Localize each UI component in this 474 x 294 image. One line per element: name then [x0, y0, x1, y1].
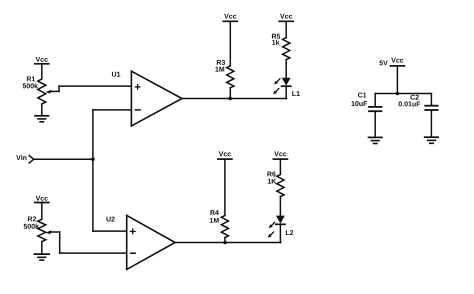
label R1 [27, 76, 35, 81]
label 10uF [352, 101, 368, 106]
label R3 [217, 60, 225, 65]
ground at C2 [425, 137, 438, 143]
label R2 [28, 216, 36, 221]
label 500k [24, 224, 39, 229]
node Vcc rail junction [396, 92, 400, 96]
node junction R3 output [229, 97, 233, 101]
label U1 [112, 72, 120, 77]
resistor R3 [227, 66, 234, 99]
ground at C1 [369, 137, 382, 143]
label C1 [358, 93, 366, 98]
capacitor C2 [425, 94, 437, 138]
node junction R4 output [223, 241, 227, 245]
resistor R5 [283, 38, 290, 78]
wire Vcc rail [375, 93, 431, 95]
label R4 [210, 210, 218, 215]
wire R1 wiper to U1 plus input [59, 86, 131, 91]
wire to U2 plus input [93, 230, 127, 232]
LED L2 [267, 216, 285, 243]
label R5 [272, 34, 280, 39]
label L2 [286, 230, 293, 235]
ground at R2 [34, 254, 49, 260]
op-amp U2 [127, 215, 175, 269]
power Vcc symbol at R4 [218, 151, 232, 215]
label 1M [215, 67, 224, 72]
label 500k [23, 83, 38, 88]
wire center vertical Vin bus [92, 110, 94, 231]
wire U1 minus input [93, 109, 131, 111]
power Vcc symbol at R3 [223, 14, 237, 66]
op-amp U1 [131, 71, 182, 126]
LED L1 [272, 78, 291, 99]
node Vin junction [91, 158, 95, 162]
label 0.01uF [399, 101, 421, 106]
resistor R6 [277, 175, 284, 216]
label L1 [292, 91, 300, 96]
power Vcc symbol at R1 [35, 57, 49, 79]
port Vin [16, 155, 34, 163]
label 1M [210, 218, 219, 223]
wire R2 wiper to U2 minus input [60, 232, 127, 253]
wire U2 output [175, 242, 281, 244]
power Vcc symbol at R6 [273, 151, 287, 174]
resistor R4 [221, 216, 228, 243]
label 1k [272, 40, 279, 45]
label 1K [268, 179, 276, 184]
label 5V [379, 60, 387, 65]
power Vcc symbol at rail [390, 58, 404, 94]
wire U1 output [182, 98, 287, 100]
label U2 [106, 217, 114, 222]
wire Vin to junction [34, 158, 93, 160]
potentiometer R1 [38, 79, 59, 116]
label R6 [267, 172, 275, 177]
power Vcc symbol at R2 [35, 196, 49, 220]
capacitor C1 [369, 94, 381, 138]
ground at R1 [35, 116, 48, 122]
label C2 [410, 95, 418, 100]
power Vcc symbol at R5 [279, 14, 293, 38]
potentiometer R2 [38, 219, 60, 254]
